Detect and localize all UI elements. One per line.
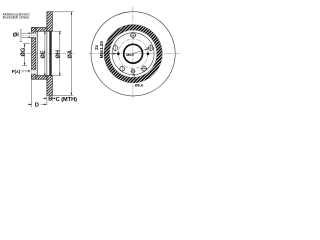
dimension B (43, 97, 56, 103)
bottom extension lines (32, 79, 53, 107)
dark transition band (104, 25, 162, 83)
dimension OI (13, 30, 31, 42)
hat bottom shoulder section (32, 76, 47, 80)
mounting wall section (32, 28, 36, 80)
svg-text:M8x1.25: M8x1.25 (99, 41, 104, 59)
stud hole upper-right (148, 44, 154, 52)
label M8 (94, 41, 117, 59)
label O65 (126, 49, 148, 57)
stud hole lower in wall (31, 70, 36, 74)
center bore circle (124, 44, 143, 63)
set screw hole bottom (130, 70, 136, 73)
svg-text:ØE: ØE (41, 50, 47, 58)
M8 service hole right (147, 51, 150, 57)
dimension OA (52, 12, 73, 96)
band inner edge line (46, 31, 48, 75)
svg-text:C (MTH): C (MTH) (56, 97, 78, 103)
svg-text:Ø65: Ø65 (126, 52, 134, 57)
hat top shoulder section (32, 28, 47, 32)
friction ring section bottom (47, 76, 52, 96)
dimension D (27, 103, 46, 109)
svg-text:ØA: ØA (67, 50, 73, 58)
drum wall dark bar (49, 31, 51, 75)
outer diameter circle (91, 12, 175, 96)
label C (MTH) (56, 97, 78, 103)
svg-text:ØG: ØG (20, 48, 26, 57)
svg-text:D: D (35, 103, 39, 109)
bolt circle (118, 39, 148, 68)
stud hole centerline top (21, 34, 38, 36)
svg-text:ØI: ØI (13, 33, 19, 39)
dimension OH (52, 31, 61, 75)
section centerline (20, 52, 75, 54)
stud hole lower-right (141, 65, 147, 73)
label F(x) (12, 69, 31, 74)
friction ring section top (47, 12, 52, 31)
stud hole upper-left (113, 44, 154, 52)
svg-text:B: B (48, 97, 52, 103)
svg-text:Illustration similar: Illustration similar (3, 16, 30, 20)
stud hole lower-left (120, 65, 148, 73)
drum inner edge line (36, 31, 38, 75)
front view vertical centerline (132, 7, 134, 100)
stud hole centerline bottom (21, 71, 38, 73)
svg-text:Ø6.6: Ø6.6 (135, 83, 144, 88)
M8 service hole left (117, 51, 120, 57)
stud hole upper in wall (31, 33, 36, 37)
hat edge circle (112, 33, 154, 75)
disclaimer note (3, 12, 30, 19)
stud hole top (129, 31, 137, 39)
dimension OG (20, 44, 30, 66)
front view horizontal centerline (89, 53, 180, 55)
svg-text:F(x): F(x) (12, 69, 21, 74)
label O6.6 (133, 73, 144, 88)
dimension OE (41, 31, 47, 76)
svg-text:ØH: ØH (56, 50, 62, 58)
